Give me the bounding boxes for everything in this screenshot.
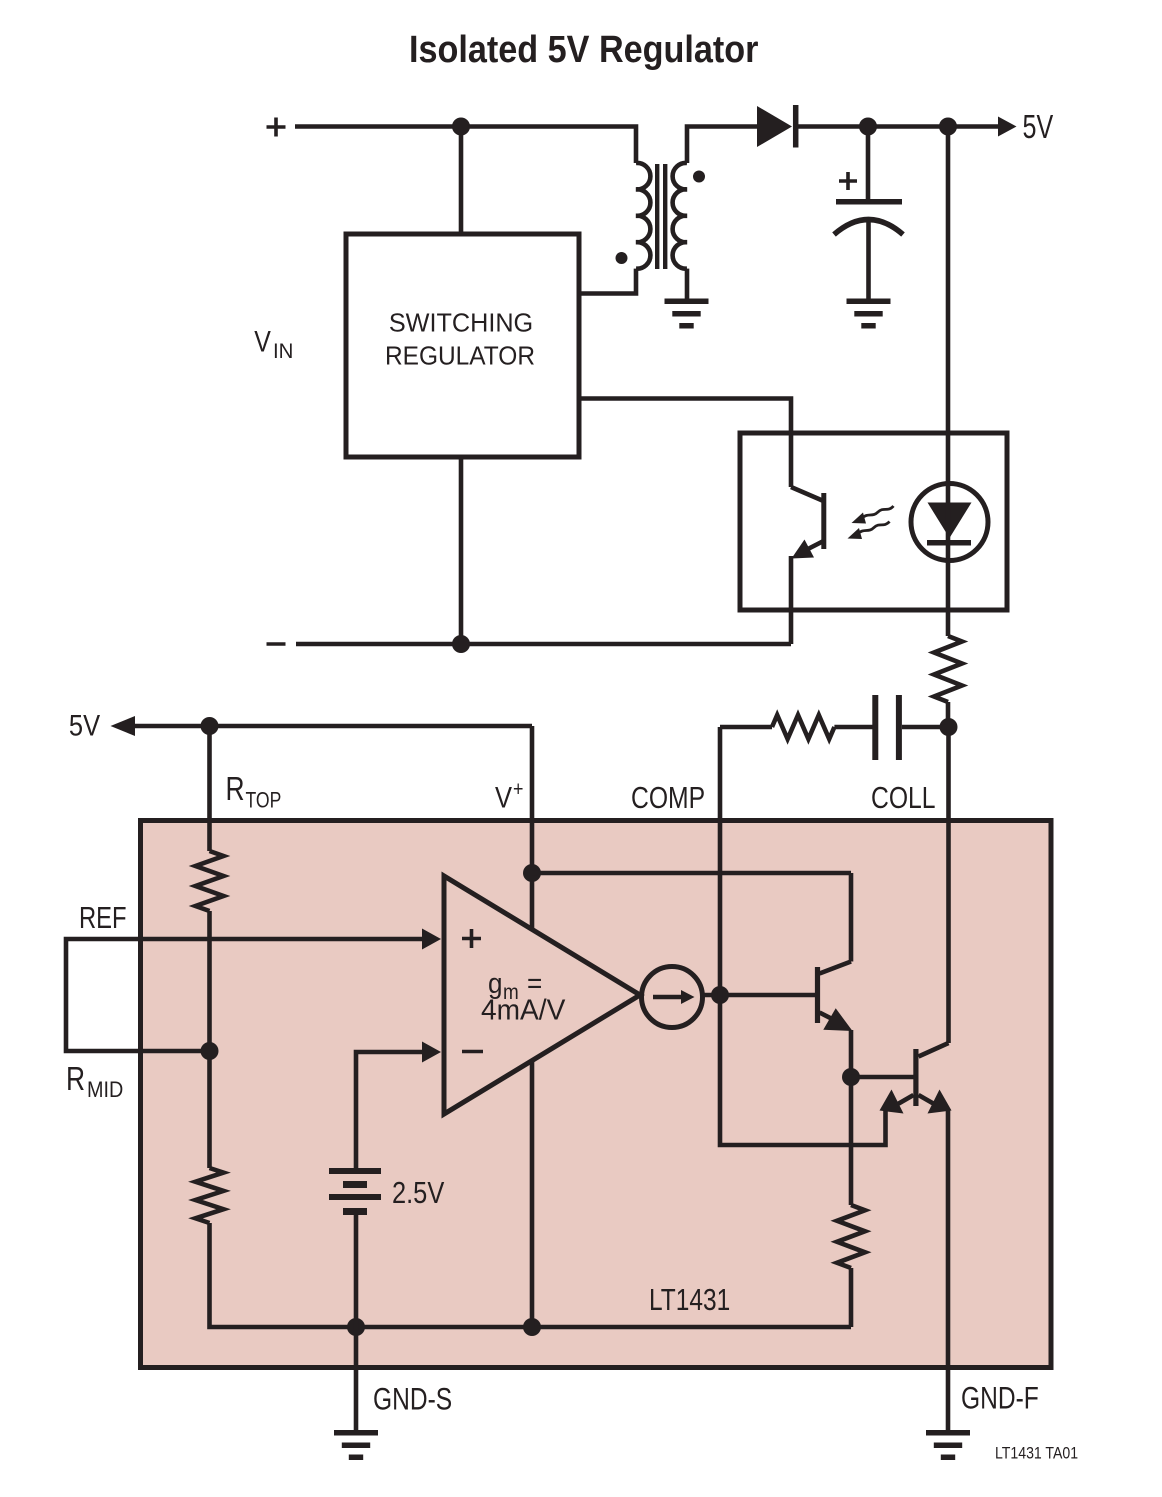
wire Q2 right emitter to GND-F — [946, 1110, 951, 1430]
wire RBOT bottom lead — [210, 1223, 852, 1327]
svg-text:V: V — [495, 781, 512, 814]
wire V+ to Q1 collector — [532, 871, 851, 876]
svg-text:REF: REF — [79, 900, 127, 935]
svg-text:V: V — [254, 324, 271, 358]
battery B1 2.5V plates — [329, 1168, 381, 1215]
svg-text:GND-F: GND-F — [961, 1380, 1039, 1416]
svg-text:LT1431: LT1431 — [649, 1282, 730, 1316]
op-amp U1 gm amplifier triangle — [444, 876, 640, 1114]
LT1431 block fill — [141, 821, 1052, 1368]
svg-text:IN: IN — [273, 340, 293, 364]
LED D2 triangle — [928, 503, 972, 539]
wire 5V rail to V+ — [135, 724, 532, 729]
node junction battery GND-S — [347, 1318, 365, 1336]
wire op-amp bottom supply — [530, 1061, 535, 1327]
wire bottom rail — [296, 642, 791, 647]
node junction RMID — [201, 1042, 219, 1060]
wire primary bottom return — [579, 269, 636, 294]
wire COMP RC lead — [720, 725, 772, 730]
wire switching regulator bottom lead — [459, 457, 464, 644]
svg-text:4mA/V: 4mA/V — [481, 994, 565, 1026]
LED D2 cathode bar — [927, 540, 971, 546]
ground GND-F — [926, 1433, 970, 1458]
svg-text:5V: 5V — [1023, 109, 1054, 146]
wire switching regulator feedback to optocoupler — [579, 399, 791, 488]
wire Q1 emitter down — [849, 1030, 854, 1205]
ground secondary — [665, 301, 709, 326]
wire current source to Q1 base — [703, 993, 816, 998]
transformer T1 secondary winding — [673, 163, 687, 269]
wire capacitor top lead — [866, 127, 871, 200]
resistor RBOT — [196, 1168, 224, 1223]
wire diode to 5V out — [798, 124, 999, 129]
node light arrows — [858, 506, 894, 534]
resistor RTOP — [196, 851, 224, 911]
wire secondary bottom lead — [685, 269, 690, 299]
resistor R1 — [934, 636, 962, 702]
node junction RTOP — [201, 717, 219, 735]
wire V+ vertical — [530, 726, 535, 929]
wire top rail — [295, 127, 636, 164]
transformer T1 primary winding — [636, 163, 650, 269]
node junction COLL — [940, 718, 958, 736]
wire R3 bottom lead — [849, 1268, 854, 1327]
LED D2 circle — [911, 484, 988, 561]
current source CS1 circle — [642, 967, 703, 1028]
svg-text:LT1431 TA01: LT1431 TA01 — [995, 1444, 1078, 1462]
wire battery bottom lead — [354, 1214, 359, 1327]
svg-text:R: R — [66, 1061, 85, 1097]
node junction COMP to base — [711, 986, 729, 1004]
node 5V output arrow — [998, 117, 1017, 137]
node junction bottom rail — [452, 635, 470, 653]
transformer T1 core — [657, 164, 665, 269]
wire RTOP to RMID node to RBOT — [207, 911, 212, 1168]
wire resistor R1 to COLL node — [946, 702, 951, 727]
node + input terminal — [267, 118, 286, 137]
wire R2 to C2 — [834, 725, 872, 730]
wire switching regulator VIN lead — [459, 127, 464, 235]
ground capacitor — [847, 301, 891, 326]
wire COLL vertical — [946, 727, 951, 1043]
svg-text:TOP: TOP — [246, 789, 282, 813]
diode D1 — [757, 106, 792, 147]
capacitor C1 plus sign — [839, 172, 857, 190]
svg-text:MID: MID — [87, 1078, 123, 1102]
svg-text:5V: 5V — [69, 708, 101, 741]
optocoupler U2 box — [740, 433, 1007, 610]
resistor R2 compensation — [772, 715, 834, 739]
node junction capacitor — [859, 118, 877, 136]
wire COMP vertical — [720, 727, 886, 1145]
ground GND-S — [334, 1433, 378, 1458]
wire LED feed vertical — [946, 127, 951, 637]
node REF arrowhead into + input — [422, 929, 441, 950]
node junction LED feed — [939, 118, 957, 136]
svg-text:Isolated 5V Regulator: Isolated 5V Regulator — [409, 27, 758, 70]
wire RTOP top lead — [207, 726, 212, 851]
node op-amp plus sign — [462, 929, 481, 948]
current source CS1 arrow — [653, 995, 681, 1000]
svg-text:SWITCHING: SWITCHING — [389, 309, 533, 337]
node junction V+ — [523, 864, 541, 882]
node phase dot primary — [616, 252, 628, 264]
resistor R3 — [837, 1205, 865, 1268]
wire REF bracket RMID — [66, 939, 423, 1051]
svg-text:COLL: COLL — [871, 781, 936, 815]
node - input terminal — [267, 642, 286, 646]
svg-text:REGULATOR: REGULATOR — [385, 342, 535, 371]
node phase dot secondary — [693, 171, 705, 183]
wire Q2 base — [851, 1075, 914, 1080]
node junction Q1 emitter / Q2 base — [842, 1068, 860, 1086]
transistor Q3 opto phototransistor — [791, 487, 824, 501]
wire minus input from battery — [356, 1052, 423, 1168]
op-amp U1 block: SWITCHING REGULATOR box — [346, 234, 579, 457]
node op-amp minus sign — [462, 1050, 483, 1054]
wire opto emitter to bottom rail — [789, 556, 794, 644]
transistor Q1 — [820, 873, 852, 974]
node junction op-amp ground — [523, 1318, 541, 1336]
capacitor C2 plates — [875, 695, 899, 760]
wire GND-S lead — [354, 1327, 359, 1430]
svg-text:COMP: COMP — [631, 781, 705, 815]
wire C2 to COLL node — [902, 725, 948, 730]
transistor Q2 — [913, 1049, 918, 1106]
node minus input arrowhead — [422, 1042, 441, 1063]
svg-text:+: + — [513, 778, 523, 802]
capacitor C1 — [836, 199, 902, 205]
svg-text:2.5V: 2.5V — [392, 1176, 444, 1211]
wire secondary top lead — [687, 127, 757, 164]
wire capacitor bottom lead — [866, 222, 871, 299]
svg-text:R: R — [226, 771, 245, 807]
node 5V low-side arrow — [111, 716, 136, 736]
svg-text:GND-S: GND-S — [373, 1381, 452, 1417]
node junction top rail to switching regulator — [452, 118, 470, 136]
